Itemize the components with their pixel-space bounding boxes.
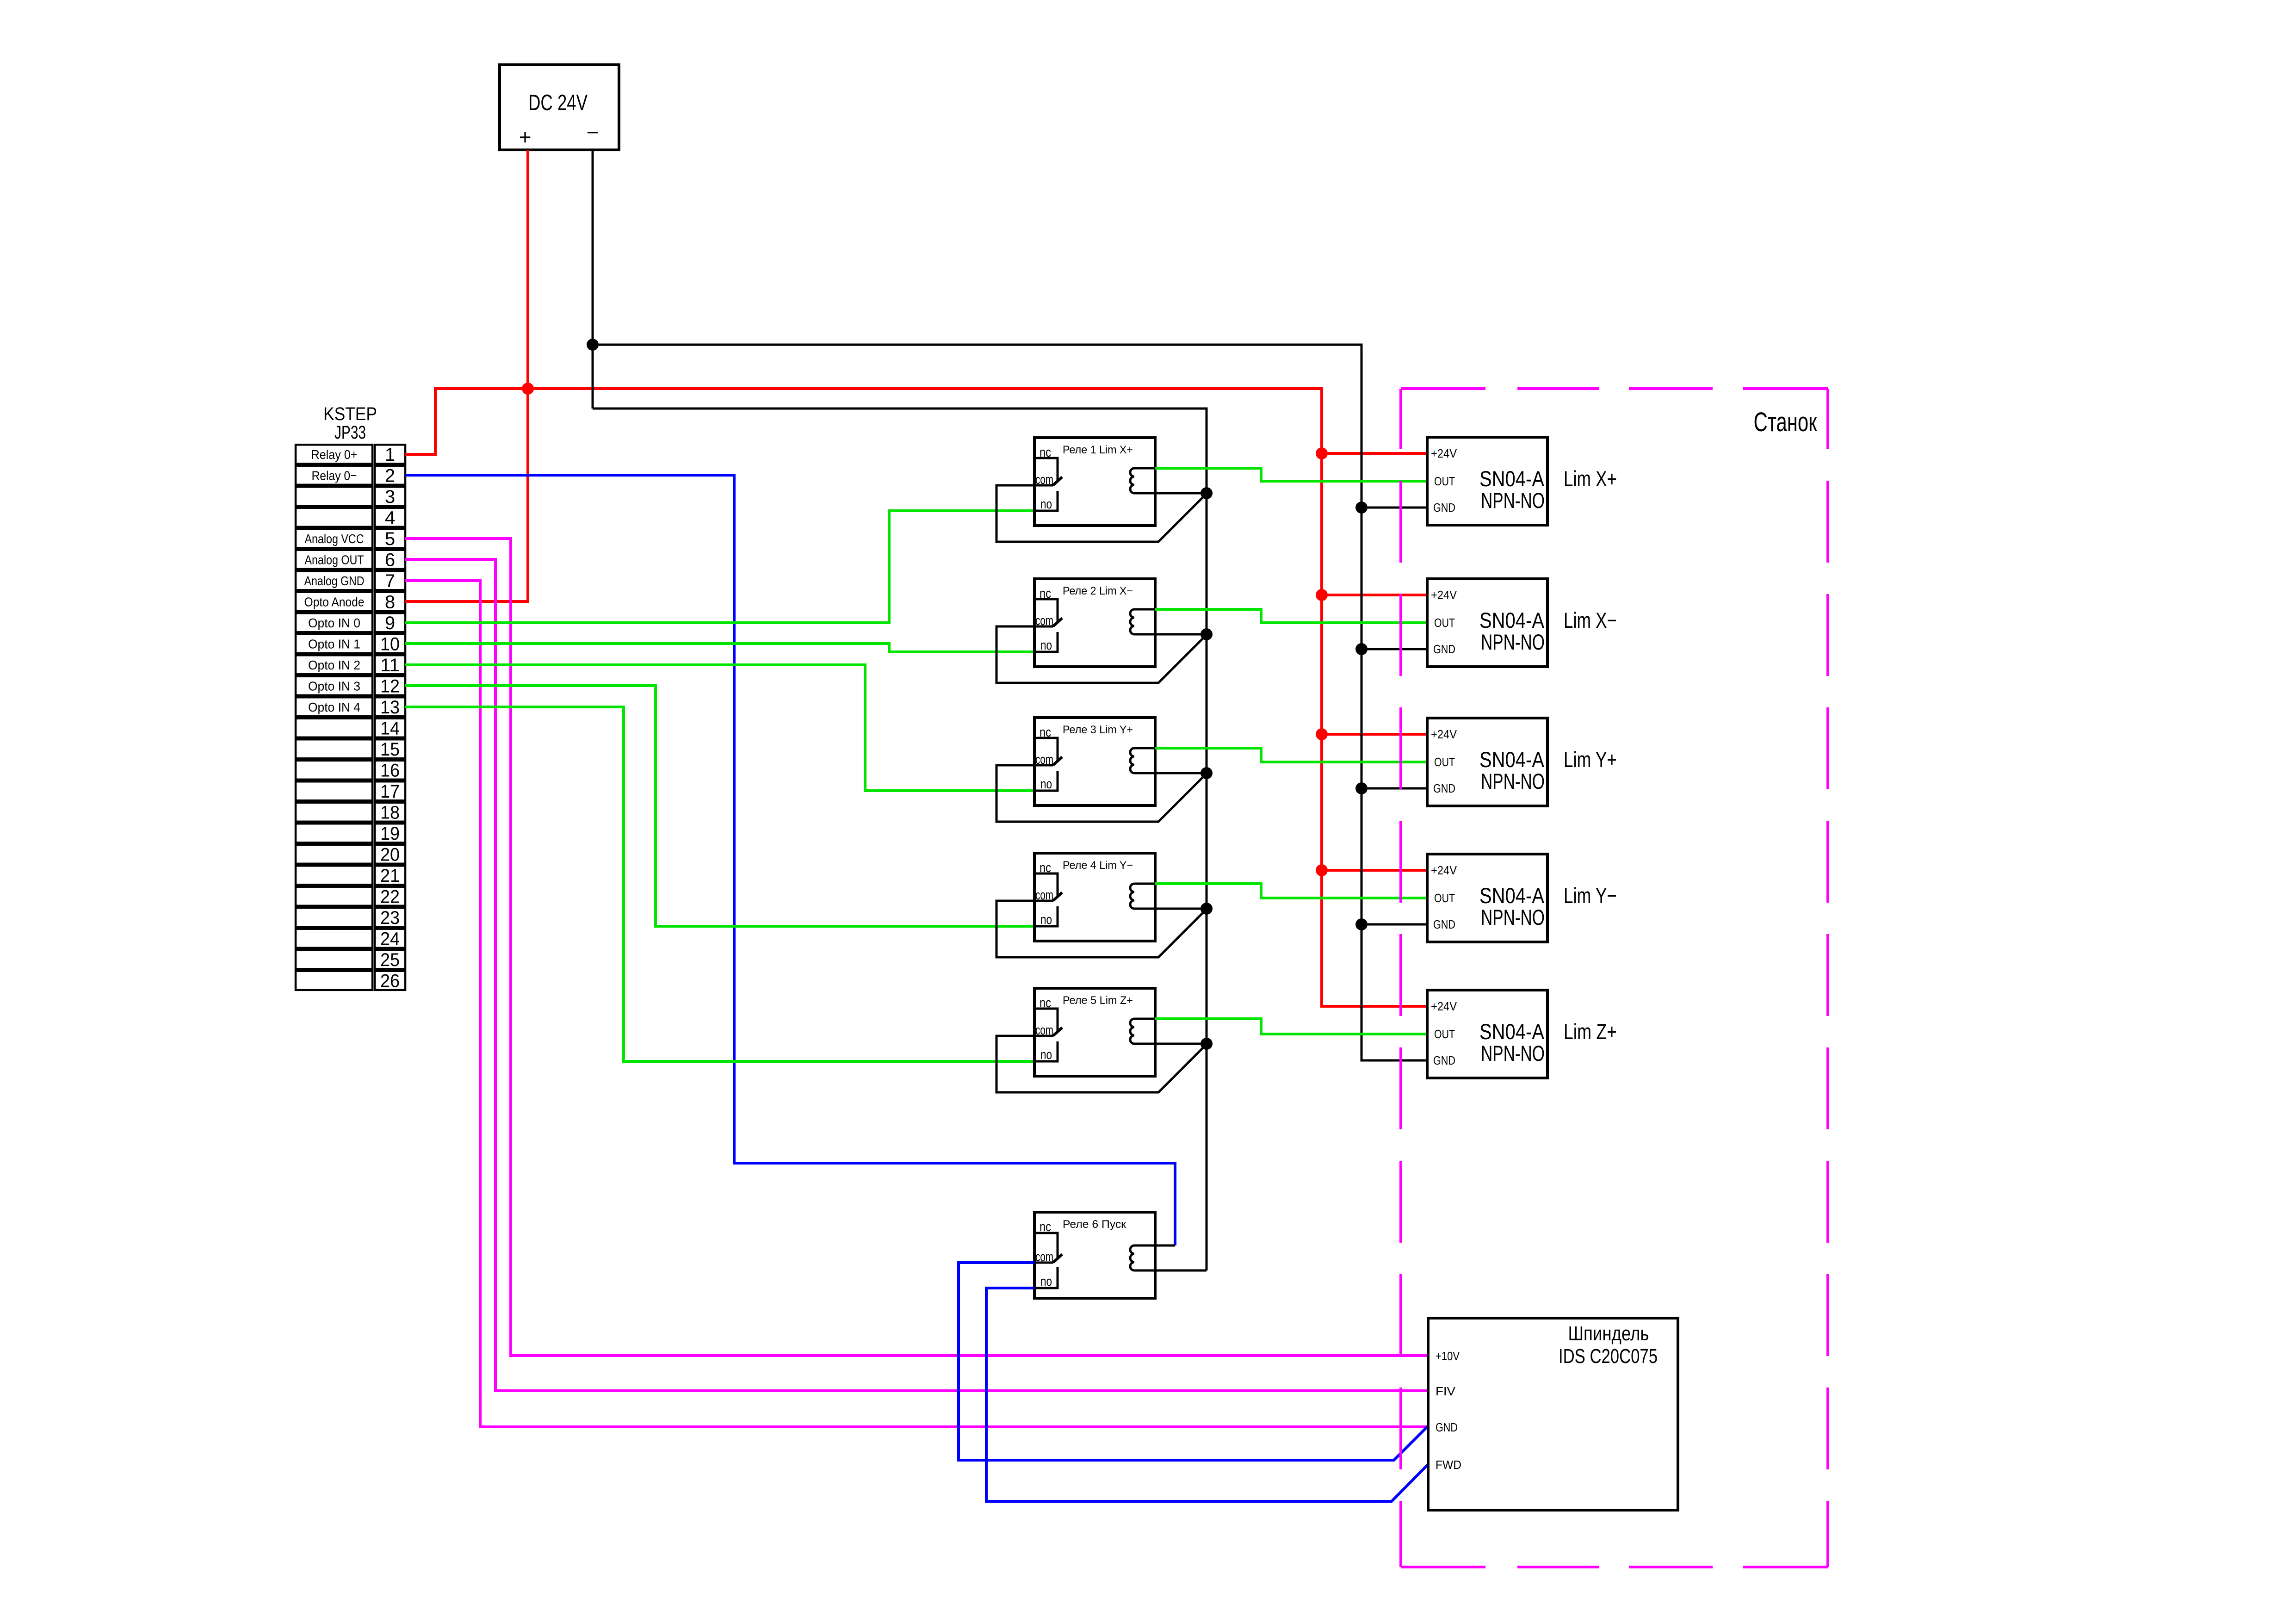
svg-text:Relay 0−: Relay 0− [312,468,357,483]
junction black GND bus sensor 4 [1355,918,1368,930]
junction relay K4 coil return [1201,903,1213,915]
junction red bus sensor 4 [1316,864,1328,876]
svg-text:8: 8 [385,592,395,612]
svg-text:Реле 4 Lim Y−: Реле 4 Lim Y− [1063,859,1133,872]
relay K5 box Реле 5 Lim Z+ [1034,988,1155,1076]
machine boundary Станок dashed left [1399,389,1402,1567]
svg-text:24: 24 [380,929,400,949]
wire red +24V stub to sensor 3 [1322,733,1427,736]
svg-text:2: 2 [385,465,395,486]
svg-text:Lim Y+: Lim Y+ [1564,747,1617,772]
svg-text:+24V: +24V [1431,446,1457,460]
sensor B4 SN04-A NPN-NO box [1427,854,1547,942]
svg-text:6: 6 [385,550,395,570]
svg-text:22: 22 [380,886,400,907]
svg-text:20: 20 [380,844,400,865]
svg-text:3: 3 [385,487,395,507]
svg-text:GND: GND [1436,1420,1458,1434]
svg-text:NPN-NO: NPN-NO [1481,488,1545,513]
wire Analog VCC pin 5 magenta to spindle +10V [405,539,1428,1356]
junction red bus sensor 3 [1316,728,1328,740]
svg-text:4: 4 [385,508,395,528]
svg-text:SN04-A: SN04-A [1479,883,1545,908]
relay K2 box Реле 2 Lim X− [1034,579,1155,667]
svg-text:FIV: FIV [1436,1384,1456,1398]
wire Opto IN 3 pin 12 green to relay 4 no [405,686,1034,926]
svg-text:no: no [1040,912,1052,927]
wire red +24V stub to sensor 2 [1322,594,1427,596]
junction relay K2 coil return [1201,628,1213,640]
svg-text:12: 12 [380,676,400,696]
svg-text:Реле 5 Lim Z+: Реле 5 Lim Z+ [1063,994,1133,1007]
svg-text:7: 7 [385,571,395,591]
junction red DC+ / +24V bus [522,383,534,395]
svg-text:17: 17 [380,781,400,802]
svg-text:18: 18 [380,802,400,823]
svg-text:15: 15 [380,739,400,760]
svg-text:FWD: FWD [1436,1458,1461,1472]
machine boundary Станок dashed top [1401,387,1828,390]
svg-text:11: 11 [380,655,400,675]
junction red bus sensor 2 [1316,589,1328,601]
svg-text:SN04-A: SN04-A [1479,1019,1545,1044]
svg-text:14: 14 [380,718,400,738]
sensor B3 SN04-A NPN-NO box [1427,718,1547,806]
wire DC+ red vertical to Opto Anode pin 8 [405,150,528,601]
svg-text:Реле 2 Lim X−: Реле 2 Lim X− [1063,585,1133,597]
junction black GND bus sensor 1 [1355,502,1368,514]
wire relay K6 no blue to spindle FWD [986,1288,1428,1501]
wire red +24V stub to sensor 4 [1322,869,1427,872]
svg-text:JP33: JP33 [334,422,366,443]
spindle IDS C20C075 box [1428,1318,1678,1510]
relay K1 coil [1130,468,1207,493]
svg-text:−: − [587,120,599,144]
svg-text:5: 5 [385,529,395,549]
svg-text:13: 13 [380,697,400,718]
svg-text:NPN-NO: NPN-NO [1481,905,1545,929]
svg-text:Opto IN 1: Opto IN 1 [308,637,360,651]
svg-text:Opto Anode: Opto Anode [304,595,365,609]
wire relay K5 coil green to sensor 5 OUT [1155,1019,1427,1034]
wire relay K4 com loop to coil return [996,901,1207,957]
svg-text:Relay 0+: Relay 0+ [311,447,358,462]
svg-text:SN04-A: SN04-A [1479,747,1545,772]
svg-text:NPN-NO: NPN-NO [1481,630,1545,654]
machine boundary Станок dashed bottom [1401,1566,1828,1568]
wire black GND stub to sensor 4 [1362,923,1427,926]
wire relay K6 com blue to spindle GND [959,1263,1428,1460]
svg-text:+24V: +24V [1431,863,1457,877]
svg-text:23: 23 [380,908,400,928]
wire DC- black down to split [592,150,594,409]
svg-text:Opto IN 3: Opto IN 3 [308,679,360,693]
svg-text:1: 1 [385,445,395,465]
svg-text:Lim Z+: Lim Z+ [1564,1019,1617,1044]
svg-text:Analog GND: Analog GND [304,574,365,588]
svg-text:Шпиндель: Шпиндель [1568,1322,1649,1345]
svg-text:KSTEP: KSTEP [323,404,377,424]
svg-text:16: 16 [380,760,400,781]
svg-text:10: 10 [380,634,400,654]
wire relay K1 coil green to sensor 1 OUT [1155,468,1427,481]
svg-text:+24V: +24V [1431,588,1457,602]
junction red bus sensor 1 [1316,447,1328,459]
svg-text:SN04-A: SN04-A [1479,466,1545,491]
svg-text:OUT: OUT [1434,891,1455,905]
svg-text:SN04-A: SN04-A [1479,608,1545,632]
svg-text:Реле 6 Пуск: Реле 6 Пуск [1063,1218,1126,1231]
junction relay K3 coil return [1201,767,1213,779]
svg-text:Opto IN 2: Opto IN 2 [308,658,360,672]
connector pin name labels [304,447,365,714]
svg-text:9: 9 [385,613,395,633]
machine boundary Станок dashed right [1826,389,1829,1567]
relay K3 coil [1130,748,1207,773]
svg-text:+: + [519,125,532,149]
wire relay K3 coil green to sensor 3 OUT [1155,748,1427,762]
svg-text:IDS C20C075: IDS C20C075 [1559,1345,1658,1368]
svg-text:NPN-NO: NPN-NO [1481,1041,1545,1065]
junction black GND bus sensor 3 [1355,782,1368,794]
svg-text:21: 21 [380,866,400,886]
relay K5 coil [1130,1019,1207,1044]
svg-text:GND: GND [1433,501,1455,514]
relay K6 box Реле 6 Пуск [1034,1212,1155,1298]
wire black GND stub to sensor 3 [1362,787,1427,790]
wire black GND stub to sensor 1 [1362,507,1427,509]
svg-text:Lim X−: Lim X− [1564,608,1617,632]
junction black GND bus sensor 2 [1355,643,1368,655]
svg-text:Реле 3 Lim Y+: Реле 3 Lim Y+ [1063,724,1133,736]
svg-text:OUT: OUT [1434,1027,1455,1041]
svg-text:OUT: OUT [1434,474,1455,488]
svg-text:Lim Y−: Lim Y− [1564,883,1617,908]
svg-text:no: no [1040,777,1052,792]
power supply DC 24V box [500,65,619,150]
wire Opto IN 4 pin 13 green to relay 5 no [405,707,1034,1061]
wire relay K1 com loop to coil return [996,485,1207,542]
junction black DC- split [587,339,599,351]
wire relay K3 com loop to coil return [996,765,1207,822]
connector JP33 pin table [296,445,405,990]
wire red +24V stub to sensor 1 [1322,452,1427,455]
svg-text:Opto IN 4: Opto IN 4 [308,700,360,714]
svg-text:NPN-NO: NPN-NO [1481,769,1545,793]
wire black coil-return bus to relays [593,409,1207,1270]
svg-text:Analog OUT: Analog OUT [305,552,364,567]
sensor B1 SN04-A NPN-NO box [1427,437,1547,525]
svg-text:GND: GND [1433,1053,1455,1067]
relay K3 box Реле 3 Lim Y+ [1034,718,1155,805]
wire relay K4 coil green to sensor 4 OUT [1155,884,1427,898]
connector pin numbers 1-26 [380,445,400,991]
svg-text:DC 24V: DC 24V [528,91,588,115]
wire relay K5 com loop to coil return [996,1036,1207,1092]
svg-text:26: 26 [380,971,400,991]
svg-text:+24V: +24V [1431,727,1457,741]
svg-text:no: no [1040,497,1052,512]
wire Opto IN 1 pin 10 green to relay 2 no [405,644,1034,652]
svg-text:25: 25 [380,950,400,970]
wire Opto IN 2 pin 11 green to relay 3 no [405,665,1034,791]
relay K4 box Реле 4 Lim Y− [1034,853,1155,941]
svg-text:GND: GND [1433,917,1455,931]
wire relay K6 com black stub [1034,1262,1053,1264]
svg-text:no: no [1040,1274,1052,1289]
wire relay K2 coil green to sensor 2 OUT [1155,609,1427,623]
svg-text:GND: GND [1433,642,1455,656]
svg-text:+10V: +10V [1436,1349,1460,1363]
junction relay K5 coil return [1201,1038,1213,1050]
sensor B5 SN04-A NPN-NO box [1427,990,1547,1078]
svg-text:Реле 1 Lim X+: Реле 1 Lim X+ [1063,444,1133,456]
relay K1 box Реле 1 Lim X+ [1034,438,1155,526]
wire Relay 0+ pin 1 to +24V red bus [405,389,1427,1006]
wire Relay 0- pin 2 blue to relay 6 coil [405,475,1175,1245]
svg-text:GND: GND [1433,781,1455,795]
svg-text:+24V: +24V [1431,999,1457,1013]
svg-text:OUT: OUT [1434,755,1455,769]
wire Opto IN 0 pin 9 green to relay 1 no [405,511,1034,623]
wire relay K2 com loop to coil return [996,626,1207,683]
wire Analog OUT pin 6 magenta to spindle FIV [405,559,1428,1391]
relay K2 coil [1130,609,1207,634]
svg-text:no: no [1040,1047,1052,1062]
sensor B2 SN04-A NPN-NO box [1427,579,1547,667]
svg-text:OUT: OUT [1434,616,1455,630]
svg-text:Lim X+: Lim X+ [1564,466,1617,491]
svg-text:Станок: Станок [1754,407,1817,437]
svg-text:Opto IN 0: Opto IN 0 [308,616,360,630]
relay K6 coil [1130,1245,1207,1270]
relay K4 coil [1130,884,1207,909]
wire Analog GND pin 7 magenta to spindle GND [405,581,1428,1427]
svg-text:Analog VCC: Analog VCC [305,532,364,546]
junction relay K1 coil return [1201,487,1213,499]
wire black GND bus to sensors [593,345,1427,1060]
svg-text:no: no [1040,638,1052,653]
wire black GND stub to sensor 2 [1362,648,1427,650]
svg-text:19: 19 [380,824,400,844]
